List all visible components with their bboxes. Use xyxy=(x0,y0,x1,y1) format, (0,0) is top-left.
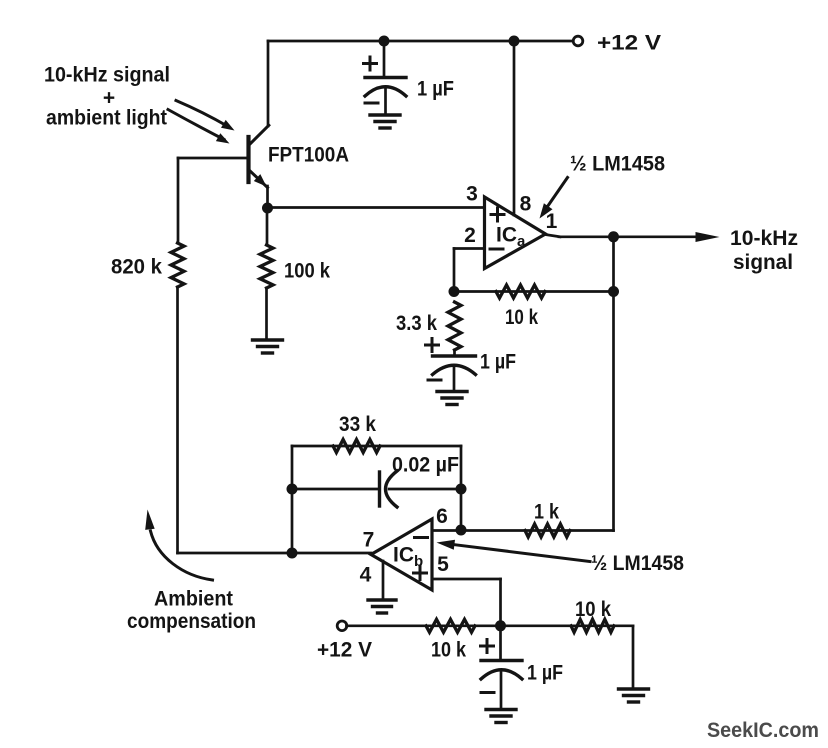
wire 33k right vertical xyxy=(460,446,463,531)
svg-text:3.3 k: 3.3 k xyxy=(396,312,437,335)
label 10 k feedback xyxy=(505,306,538,329)
transistor Q1 base bar xyxy=(246,137,250,182)
arrow light 2 xyxy=(168,110,230,144)
svg-text:1 µF: 1 µF xyxy=(480,351,516,374)
node 0.02 right xyxy=(456,484,467,495)
svg-text:2: 2 xyxy=(464,224,476,247)
label pin 2 xyxy=(464,224,476,247)
capacitor C4 1uF xyxy=(481,661,522,680)
svg-text:10 k: 10 k xyxy=(431,639,466,662)
svg-text:1 µF: 1 µF xyxy=(417,78,454,101)
label pin 4 xyxy=(360,564,372,587)
wire C2 to ground xyxy=(453,366,456,391)
svg-text:8: 8 xyxy=(520,193,532,216)
capacitor C2 1uF xyxy=(433,356,476,375)
label 1 k xyxy=(534,501,559,524)
label compensation xyxy=(127,610,256,633)
arrow Q1 emitter xyxy=(254,174,267,186)
label half LM1458 top xyxy=(570,153,665,176)
wire C1 to ground xyxy=(384,88,387,115)
svg-text:10 k: 10 k xyxy=(575,598,611,621)
ground C4 xyxy=(486,710,516,723)
terminal +12V bottom xyxy=(337,621,347,631)
label C1 minus xyxy=(365,102,378,105)
label FPT100A xyxy=(268,144,349,167)
op-amp U1 ICa xyxy=(485,197,546,269)
svg-text:100 k: 100 k xyxy=(284,260,330,283)
label plus input xyxy=(103,87,115,110)
wire C4 to ground xyxy=(500,671,503,709)
label ICa xyxy=(496,224,526,251)
svg-text:10-kHz: 10-kHz xyxy=(730,227,798,250)
svg-text:820 k: 820 k xyxy=(111,256,162,279)
resistor R6 1k xyxy=(525,524,570,537)
label 10 k bottom-left xyxy=(431,639,466,662)
label ICb xyxy=(393,544,423,571)
op-amp U2 ICb xyxy=(371,519,432,590)
label 3.3 k xyxy=(396,312,437,335)
svg-text:ambient light: ambient light xyxy=(46,107,167,130)
wire 100k to ground xyxy=(265,288,268,338)
label 33 k xyxy=(339,413,376,436)
label pin 3 xyxy=(466,183,478,206)
wire bottom-right down xyxy=(632,626,635,687)
node 33k left bottom xyxy=(287,548,298,559)
label ambient light xyxy=(46,107,167,130)
svg-text:1: 1 xyxy=(546,210,558,233)
wire Q1 emitter diagonal xyxy=(249,170,268,188)
resistor R1 820k xyxy=(171,243,184,287)
svg-text:signal: signal xyxy=(733,251,793,274)
wire Q1 emitter vertical xyxy=(266,186,269,208)
node Q1 emitter junction xyxy=(262,203,273,214)
node bias junction xyxy=(495,620,506,631)
svg-text:+12 V: +12 V xyxy=(597,32,661,55)
label C4 plus xyxy=(481,640,494,653)
label C4 minus xyxy=(481,691,494,694)
node 33k left mid xyxy=(287,484,298,495)
label C2 minus xyxy=(428,379,441,382)
label pin 8 xyxy=(520,193,532,216)
label C1 plus xyxy=(364,57,377,70)
wire output down right side xyxy=(612,237,615,531)
capacitor C3 0.02uF xyxy=(380,471,398,507)
svg-text:½ LM1458: ½ LM1458 xyxy=(570,153,665,176)
wire output ICa xyxy=(545,235,698,237)
label +12 V top xyxy=(597,32,661,55)
wire Q1 collector diagonal xyxy=(249,125,269,145)
wire left bottom horizontal xyxy=(178,552,372,555)
label pin 5 xyxy=(437,553,449,576)
resistor R4 3.3k xyxy=(448,302,461,350)
resistor R7 10k bottom-left xyxy=(426,619,475,632)
svg-text:1 µF: 1 µF xyxy=(527,662,563,685)
label 820 k xyxy=(111,256,162,279)
label +12 V bottom xyxy=(317,639,372,662)
wire pin3 from emitter xyxy=(268,206,485,209)
label 1 uF bottom xyxy=(527,662,563,685)
wire cap 0.02 right xyxy=(389,488,461,491)
svg-text:3: 3 xyxy=(466,183,478,206)
resistor R3 10k feedback xyxy=(496,285,545,298)
wire 3.3k to cap xyxy=(453,350,456,356)
ground C1 xyxy=(370,115,400,128)
wire pin5 horiz xyxy=(432,578,501,581)
label 10-kHz out xyxy=(730,227,798,250)
svg-text:6: 6 xyxy=(436,505,448,528)
resistor R2 100k xyxy=(260,245,273,288)
node pin6 junction xyxy=(456,525,467,536)
wire Q1 base lead xyxy=(178,157,248,160)
label 1 uF top xyxy=(417,78,454,101)
wire pin5 down xyxy=(499,579,502,627)
svg-text:10 k: 10 k xyxy=(505,306,538,329)
svg-text:+12 V: +12 V xyxy=(317,639,372,662)
svg-text:33 k: 33 k xyxy=(339,413,376,436)
label 1 uF mid xyxy=(480,351,516,374)
wire pin2 horiz xyxy=(454,247,484,250)
arrow ambient compensation xyxy=(145,510,212,581)
label C2 plus xyxy=(426,339,439,352)
wire Q1 collector vertical xyxy=(267,41,270,126)
svg-text:7: 7 xyxy=(363,529,375,552)
arrow output xyxy=(696,232,720,242)
label signal out xyxy=(733,251,793,274)
wire pin2 down xyxy=(453,249,456,292)
wire base to 820k xyxy=(177,158,180,243)
node output junction xyxy=(608,231,619,242)
svg-text:½ LM1458: ½ LM1458 xyxy=(591,552,684,575)
wire 820k down long xyxy=(176,287,179,553)
node top-rail pin8 junction xyxy=(509,36,520,47)
wire 33k left vertical xyxy=(291,446,294,553)
svg-text:compensation: compensation xyxy=(127,610,256,633)
node feedback right xyxy=(608,286,619,297)
label 10-kHz signal input xyxy=(44,64,170,87)
node feedback left xyxy=(449,286,460,297)
wire cap 0.02 left xyxy=(292,488,379,491)
wire bottom rail xyxy=(347,624,634,627)
label pin 7 xyxy=(363,529,375,552)
capacitor C1 1uF xyxy=(365,78,406,97)
label 10 k bottom-right xyxy=(575,598,611,621)
wire pin8 vertical xyxy=(513,41,516,215)
label half LM1458 bottom xyxy=(591,552,684,575)
svg-text:0.02 µF: 0.02 µF xyxy=(392,454,459,477)
wire 33k top xyxy=(292,445,461,448)
wire C4 stub xyxy=(499,626,502,660)
wire feedback horizontal xyxy=(454,290,614,293)
terminal +12V top xyxy=(573,36,583,46)
wire pin6 to 1k xyxy=(432,529,614,532)
arrow pointer LM1458 top xyxy=(540,178,568,219)
label 0.02 uF xyxy=(392,454,459,477)
svg-text:FPT100A: FPT100A xyxy=(268,144,349,167)
wire +12V top rail xyxy=(268,40,574,43)
svg-text:5: 5 xyxy=(437,553,449,576)
label 100 k xyxy=(284,260,330,283)
node top-rail C1 junction xyxy=(379,36,390,47)
svg-text:Ambient: Ambient xyxy=(154,588,233,611)
svg-text:10-kHz signal: 10-kHz signal xyxy=(44,64,170,87)
svg-text:SeekIC.com: SeekIC.com xyxy=(707,718,819,742)
wire pin4 stub xyxy=(382,561,385,598)
arrow pointer LM1458 bottom xyxy=(437,540,591,562)
wire emitter junction down xyxy=(266,208,269,245)
label Ambient xyxy=(154,588,233,611)
arrow light 1 xyxy=(176,101,235,131)
label SeekIC.com watermark xyxy=(707,718,819,742)
ground R2 xyxy=(253,340,283,353)
label pin 6 xyxy=(436,505,448,528)
wire C1 stub xyxy=(383,41,386,77)
ground pin4 xyxy=(368,600,396,613)
ground C2 xyxy=(437,392,467,405)
label pin 1 xyxy=(546,210,558,233)
svg-text:4: 4 xyxy=(360,564,372,587)
svg-text:1 k: 1 k xyxy=(534,501,559,524)
resistor R5 33k xyxy=(333,440,380,453)
resistor R8 10k bottom-right xyxy=(571,619,614,632)
ground bottom-right xyxy=(619,689,649,702)
